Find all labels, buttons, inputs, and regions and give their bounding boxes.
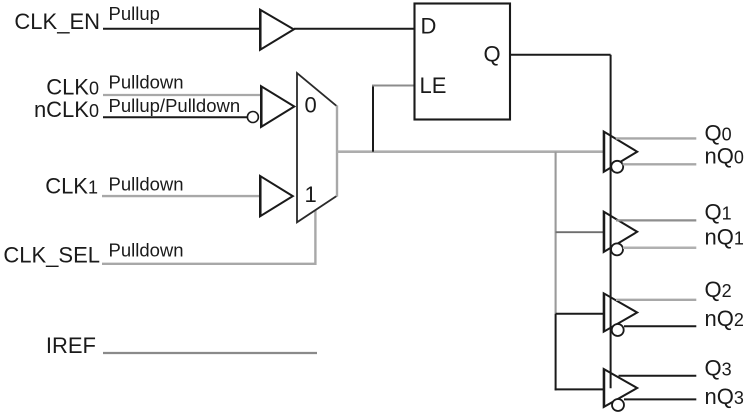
wire Q1 output <box>616 219 696 221</box>
wire IREF stub <box>103 352 317 354</box>
wire Q2 output <box>616 299 696 301</box>
wire Q output horizontal <box>510 54 611 56</box>
svg-text:nQ3: nQ3 <box>705 384 744 409</box>
svg-text:Pullup/Pulldown: Pullup/Pulldown <box>109 95 241 116</box>
buffer U3 (CLK1) <box>260 176 293 216</box>
svg-text:nQ0: nQ0 <box>705 143 744 168</box>
multiplexer U4 <box>297 73 337 222</box>
svg-text:nQ1: nQ1 <box>705 224 744 249</box>
output buffer T2 (Q2/nQ2) <box>604 293 638 331</box>
wire LE feedback horizontal <box>372 84 414 86</box>
svg-text:Pulldown: Pulldown <box>109 173 184 194</box>
wire nQ0 output <box>623 163 697 165</box>
wire Q output vertical feed through buffers <box>610 55 612 388</box>
svg-text:Pulldown: Pulldown <box>109 71 184 92</box>
svg-text:D: D <box>421 14 437 39</box>
wire CLK1 to buffer <box>102 195 261 197</box>
wire fanout branch vertical (black lower) <box>555 314 557 391</box>
svg-text:1: 1 <box>305 182 317 207</box>
svg-text:Pulldown: Pulldown <box>109 239 184 260</box>
wire Q0 output <box>616 137 697 139</box>
svg-text:CLK0: CLK0 <box>46 75 99 100</box>
wire nQ3 output <box>624 398 696 400</box>
wire nCLK0 to bubble <box>103 116 248 118</box>
wire Q3 output <box>619 375 697 377</box>
svg-text:Pullup: Pullup <box>109 3 160 24</box>
wire nQ1 output <box>623 247 696 250</box>
output buffer T0 (Q0/nQ0) <box>604 132 638 172</box>
svg-text:CLK_EN: CLK_EN <box>14 9 100 34</box>
svg-text:nQ2: nQ2 <box>705 306 744 331</box>
output buffer T1 (Q1/nQ1) <box>604 212 638 252</box>
wire branch to buffer T3 <box>555 388 605 390</box>
wire CLK_SEL to mux select <box>102 209 315 263</box>
svg-text:CLK_SEL: CLK_SEL <box>3 243 100 268</box>
bubble nQ1 <box>611 243 623 255</box>
svg-text:Q1: Q1 <box>705 200 732 225</box>
wire CLK_EN to buffer <box>103 28 261 30</box>
latch U5 <box>415 4 511 120</box>
bubble nQ2 <box>612 324 624 336</box>
wire branch to buffer T2 <box>556 313 605 315</box>
buffer U1 (CLK_EN) <box>260 10 294 50</box>
svg-text:0: 0 <box>305 93 317 118</box>
wire branch to buffer T1 <box>556 231 605 233</box>
bubble nQ0 <box>611 161 623 173</box>
svg-text:LE: LE <box>420 73 447 98</box>
wire U1 output to D <box>294 28 415 30</box>
svg-text:Q0: Q0 <box>705 120 732 145</box>
bubble nQ3 <box>612 399 624 411</box>
net main clock line (mux output) <box>337 150 605 153</box>
buffer U2 (CLK0/nCLK0 differential input) <box>261 86 294 127</box>
svg-text:IREF: IREF <box>46 333 96 358</box>
svg-text:Q: Q <box>484 42 501 67</box>
svg-text:CLK1: CLK1 <box>45 174 98 199</box>
wire CLK0 to buffer <box>103 94 262 96</box>
wire nQ2 output <box>624 325 696 327</box>
bubble on nCLK0 input <box>247 112 258 123</box>
svg-text:nCLK0: nCLK0 <box>34 97 99 122</box>
svg-text:Q3: Q3 <box>705 356 732 381</box>
wire fanout branch vertical (gray upper) <box>555 152 557 314</box>
output buffer T3 (Q3/nQ3) <box>604 369 638 407</box>
wire LE feedback vertical <box>372 85 374 152</box>
svg-text:Q2: Q2 <box>705 277 732 302</box>
